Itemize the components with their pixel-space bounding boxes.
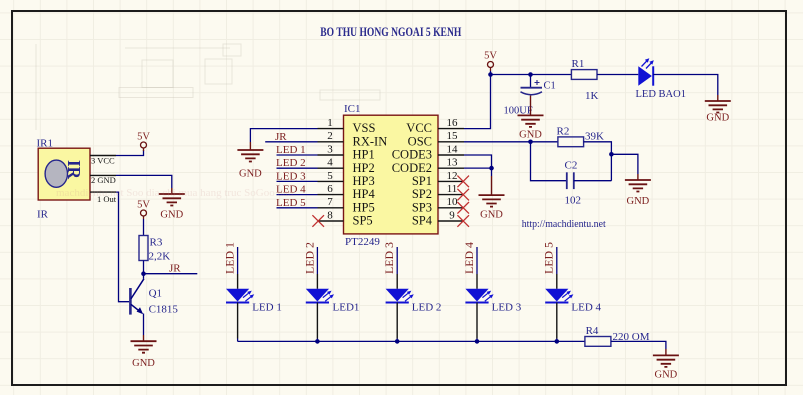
svg-text:16: 16 (447, 117, 459, 129)
wire LED1 to bus (237, 303, 239, 339)
IR1 pin 3 VCC (90, 156, 116, 166)
svg-text:Q1: Q1 (149, 288, 162, 300)
wire pin5 LED 3 net (277, 180, 318, 182)
svg-text:PT2249: PT2249 (345, 236, 380, 248)
svg-text:GND: GND (706, 113, 729, 124)
junction bus col3 (395, 339, 400, 344)
svg-text:102: 102 (565, 195, 582, 207)
wire pin16 VCC riser (464, 75, 491, 128)
svg-text:R3: R3 (150, 237, 163, 249)
power 5V (R3 top) (137, 200, 150, 220)
wire JR net (144, 273, 198, 275)
svg-text:CODE2: CODE2 (392, 161, 432, 175)
wire VCC pin to 5V (116, 150, 144, 156)
svg-text:1K: 1K (585, 90, 599, 102)
svg-text:RX-IN: RX-IN (353, 134, 388, 148)
transistor Q1 (130, 279, 178, 316)
wire R1 to LED BAO1 (597, 74, 638, 76)
svg-text:SP3: SP3 (412, 200, 432, 214)
svg-text:LED 2: LED 2 (276, 157, 306, 169)
svg-text:5V: 5V (484, 51, 497, 62)
resistor R2 (557, 126, 605, 147)
svg-text:9: 9 (449, 209, 455, 221)
svg-text:14: 14 (447, 143, 459, 155)
svg-text:2 GND: 2 GND (91, 175, 116, 185)
wire C1 to ground (530, 96, 532, 116)
svg-text:12: 12 (447, 170, 458, 182)
svg-text:SP5: SP5 (353, 214, 373, 228)
svg-text:6: 6 (327, 183, 333, 195)
svg-text:LED 1: LED 1 (276, 144, 306, 156)
wire pin6 LED 4 net (277, 194, 318, 196)
IC1 pin numbers left (327, 117, 333, 221)
svg-text:GND: GND (627, 196, 650, 207)
svg-text:10: 10 (447, 196, 459, 208)
ground (LED BAO1) (705, 95, 731, 124)
svg-text:JR: JR (275, 131, 287, 143)
svg-text:GND: GND (519, 130, 542, 141)
no-connect X pin 12 (457, 176, 469, 188)
svg-text:HP4: HP4 (353, 187, 376, 201)
wire pin7 LED 5 net (277, 207, 318, 209)
diode LED1 (306, 289, 360, 314)
wire pin4 LED 2 net (277, 167, 318, 169)
ground (R2 C2 node) (625, 174, 651, 207)
junction pin13 node (489, 166, 494, 171)
svg-text:7: 7 (327, 196, 333, 208)
svg-text:IR1: IR1 (37, 138, 54, 150)
svg-text:HP3: HP3 (353, 174, 375, 188)
wire pin14 CODE3 riser (464, 155, 492, 168)
no-connect X pin 9 (457, 215, 469, 227)
wire pin15 OSC to R2 (464, 141, 558, 143)
svg-text:SP2: SP2 (412, 187, 432, 201)
junction C1 tap (528, 72, 533, 77)
svg-text:5V: 5V (137, 200, 150, 211)
capacitor C2 102 (565, 160, 582, 207)
wire R4 to ground (611, 341, 666, 349)
wire R3 to collector node (143, 261, 145, 279)
ground (R4) (653, 349, 679, 381)
wire emitter to ground (143, 314, 145, 336)
svg-text:IR: IR (64, 160, 84, 180)
LED column 5 net wire (556, 247, 558, 274)
svg-text:LED 3: LED 3 (492, 302, 522, 314)
IC1 pin stubs right 16-9 (438, 129, 464, 221)
junction OSC node (528, 140, 533, 145)
svg-text:C1: C1 (544, 81, 556, 92)
svg-text:1: 1 (327, 117, 333, 129)
svg-text:LED 2: LED 2 (302, 242, 316, 274)
wire C1 tap down (530, 75, 532, 88)
svg-text:11: 11 (447, 183, 458, 195)
capacitor C1 100UF (504, 80, 556, 117)
LED BAO1 (636, 58, 686, 100)
svg-text:HP2: HP2 (353, 161, 375, 175)
svg-text:3 VCC: 3 VCC (91, 156, 115, 166)
svg-text:SP1: SP1 (412, 174, 432, 188)
ground (pin1 VSS) (237, 142, 263, 180)
wire pin1 VSS to ground (250, 129, 317, 142)
ground (CODE pins) (479, 176, 505, 221)
IC1 pin stubs left 1-8 (318, 129, 344, 221)
wire pin2 RX-IN JR net (265, 141, 317, 143)
svg-text:8: 8 (327, 209, 333, 221)
svg-text:BO THU HONG NGOAI 5 KENH: BO THU HONG NGOAI 5 KENH (320, 25, 461, 39)
svg-text:15: 15 (447, 130, 459, 142)
svg-text:GND: GND (480, 210, 503, 221)
diode LED 1 (226, 289, 282, 314)
resistor R4 (585, 325, 650, 346)
wire pin3 LED 1 net (277, 154, 318, 156)
svg-text:LED 1: LED 1 (223, 242, 237, 274)
power 5V (main rail) (484, 51, 497, 72)
svg-text:IR: IR (37, 209, 49, 221)
wire C2 right to node (574, 180, 612, 182)
svg-text:LED 2: LED 2 (412, 302, 442, 314)
diode LED 4 (545, 289, 601, 314)
ground (C1) (518, 115, 544, 140)
svg-text:LED 5: LED 5 (542, 242, 556, 274)
junction bus col2 (315, 339, 320, 344)
svg-text:CODE3: CODE3 (392, 148, 432, 162)
ground (IR gnd) (159, 188, 185, 221)
svg-text:5: 5 (327, 170, 333, 182)
svg-text:LED 3: LED 3 (276, 170, 306, 182)
wire LED column 4 to bus (476, 303, 478, 339)
junction bus col5 (555, 339, 560, 344)
svg-text:VCC: VCC (406, 121, 432, 135)
wire node to ground branch (611, 154, 638, 174)
wire R2 right to node (584, 142, 612, 181)
resistor R1 (571, 58, 598, 102)
svg-text:2,2K: 2,2K (149, 251, 171, 263)
svg-text:5V: 5V (137, 132, 150, 143)
svg-text:http://machdientu.net: http://machdientu.net (522, 219, 606, 230)
svg-text:2: 2 (327, 130, 333, 142)
wire LED column 2 to bus (316, 303, 318, 339)
svg-text:GND: GND (655, 370, 678, 381)
wire GND pin to ground (116, 175, 172, 188)
LED column 1 net wire (237, 247, 239, 274)
wire 5V to R3 (143, 219, 145, 236)
svg-text:R1: R1 (572, 58, 585, 70)
IC1 pin names left (353, 121, 388, 227)
svg-text:4: 4 (327, 157, 333, 169)
svg-text:VSS: VSS (353, 121, 376, 135)
wire Out pin to Q1 base (116, 192, 129, 302)
title (320, 25, 461, 39)
IR1 pin 2 GND (90, 175, 116, 185)
IR receiver IR1 (38, 148, 90, 200)
svg-text:LED 1: LED 1 (252, 302, 282, 314)
svg-text:LED1: LED1 (333, 302, 360, 314)
svg-text:GND: GND (239, 169, 262, 180)
wire LED column 3 to bus (396, 303, 398, 339)
svg-text:3: 3 (327, 143, 333, 155)
svg-text:13: 13 (447, 157, 459, 169)
junction bus col4 (475, 339, 480, 344)
svg-text:SP4: SP4 (412, 214, 433, 228)
no-connect X pin 8 (312, 215, 324, 227)
svg-text:39K: 39K (585, 131, 604, 143)
svg-text:LED 4: LED 4 (462, 242, 476, 274)
wire LED BAO1 to ground (653, 75, 718, 96)
svg-text:R2: R2 (557, 126, 570, 138)
svg-text:C1815: C1815 (149, 304, 179, 316)
junction JR node (141, 271, 146, 276)
resistor R3 (139, 236, 170, 263)
op IC1 PT2249 body (344, 115, 439, 234)
svg-text:LED 3: LED 3 (382, 242, 396, 274)
diode LED 2 (386, 289, 442, 314)
wire OSC node down to C2 left (531, 142, 567, 181)
ground (Q1 emitter) (131, 335, 157, 369)
junction R2/C2/ground node (609, 152, 614, 157)
junction 5V rail (488, 72, 493, 77)
svg-text:machdientu.net Soo dia chi mua: machdientu.net Soo dia chi mua hang truc… (56, 187, 294, 199)
wire pin13 CODE2 (464, 167, 492, 169)
LED column 2 net wire (316, 247, 318, 274)
svg-text:R4: R4 (586, 325, 599, 337)
svg-text:LED BAO1: LED BAO1 (636, 89, 686, 100)
IR1 pin 1 Out (90, 192, 117, 204)
svg-text:GND: GND (132, 358, 155, 369)
diode LED 3 (465, 289, 521, 314)
IC1 pin numbers right (447, 117, 459, 221)
no-connect X pin 10 (457, 202, 469, 214)
wire pin13 node to ground (491, 168, 493, 176)
svg-text:HP5: HP5 (353, 200, 375, 214)
svg-text:HP1: HP1 (353, 148, 375, 162)
svg-text:LED 4: LED 4 (571, 302, 601, 314)
svg-text:C2: C2 (565, 160, 578, 172)
svg-text:GND: GND (160, 210, 183, 221)
power 5V (IR vcc) (137, 132, 150, 152)
svg-text:JR: JR (169, 263, 181, 275)
ghost window artifacts (faint) (36, 44, 380, 130)
no-connect X pin 11 (457, 189, 469, 201)
LED column 4 net wire (476, 247, 478, 274)
svg-text:IC1: IC1 (344, 103, 361, 115)
wire LED column 5 to bus (556, 303, 558, 339)
svg-text:OSC: OSC (408, 134, 432, 148)
IC1 pin names right (392, 121, 433, 227)
wire LED bus (238, 340, 585, 342)
wire 5V rail to R1 (491, 71, 572, 75)
LED column 3 net wire (396, 247, 398, 274)
